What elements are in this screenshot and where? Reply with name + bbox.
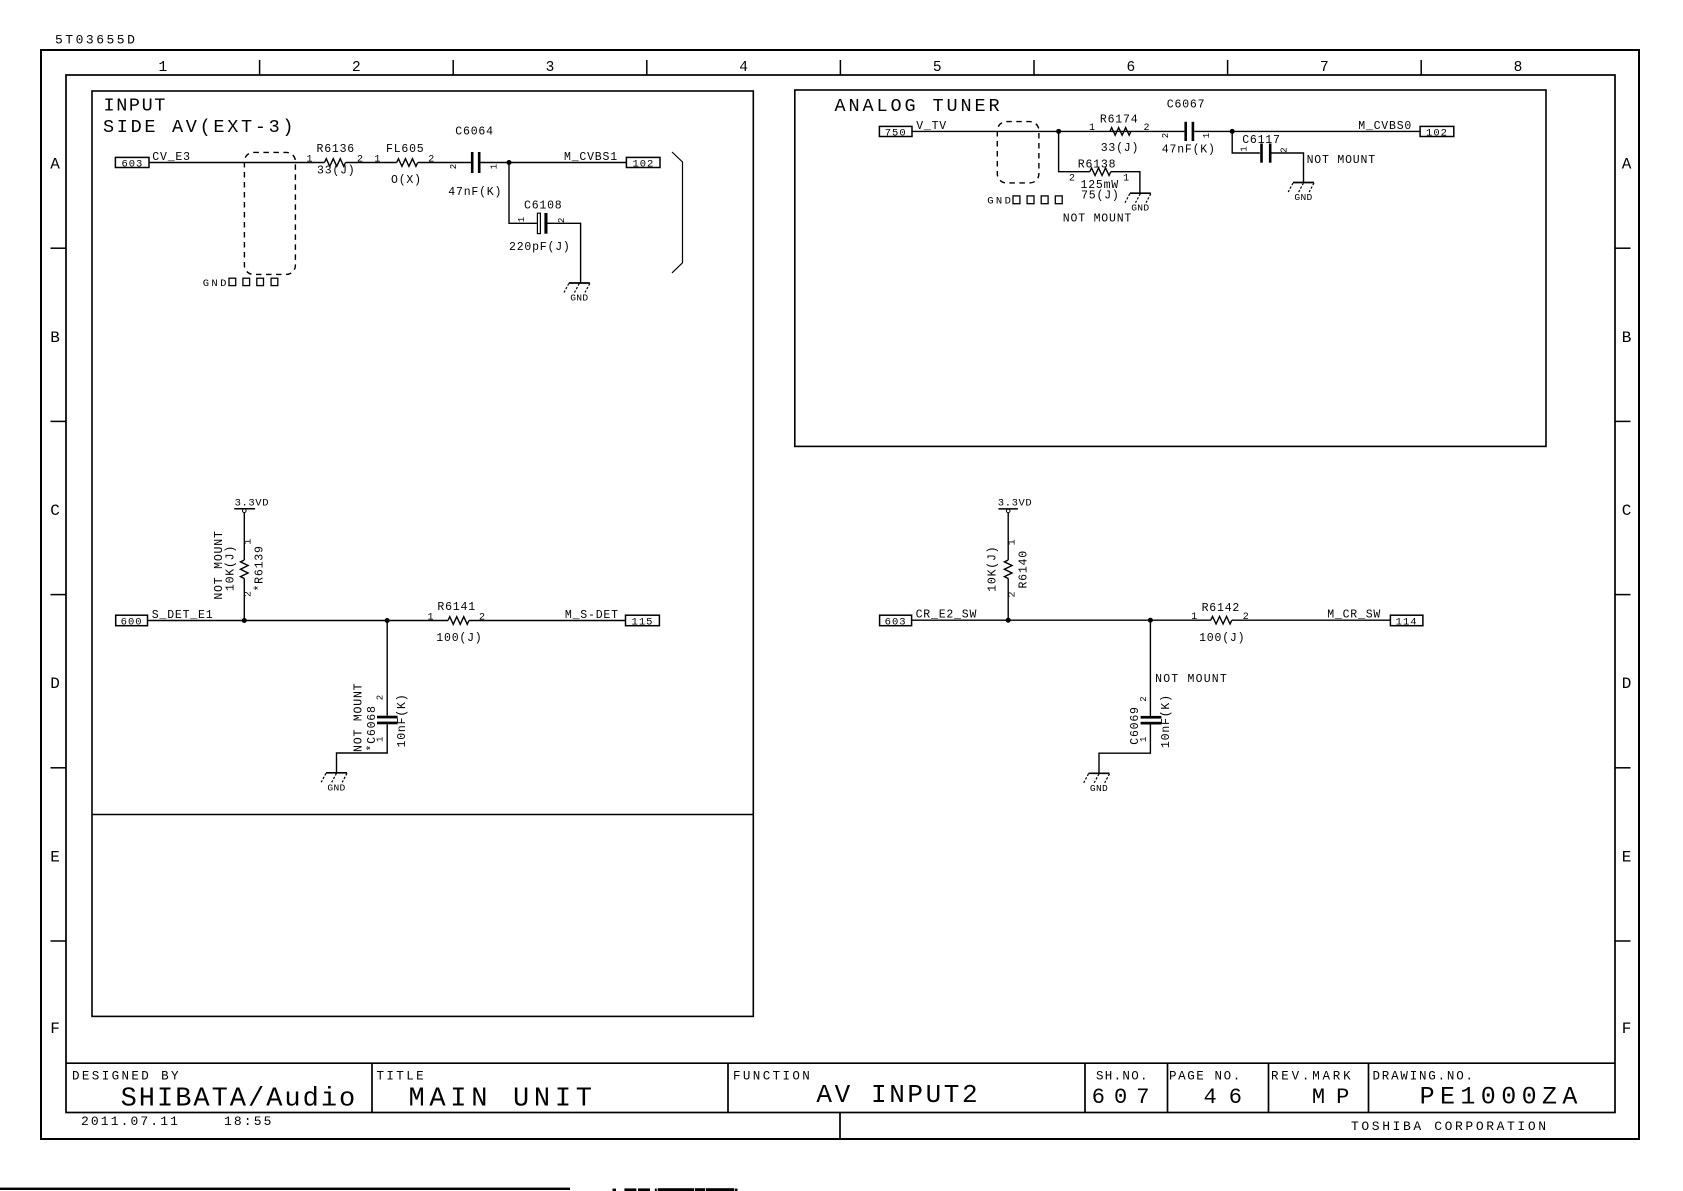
svg-text:GND: GND [987,195,1013,207]
wire R6138 to ground [1111,172,1140,194]
svg-text:115: 115 [632,616,654,628]
svg-text:10nF(K): 10nF(K) [396,694,409,748]
C6069 plates [1141,716,1162,719]
C6108 plates [537,213,540,233]
ground GND (C6068) [321,773,347,794]
svg-text:MP: MP [1312,1085,1360,1110]
svg-text:2: 2 [1243,612,1249,623]
svg-text:GND: GND [1294,192,1312,203]
connector pins GND squares (tuner) [987,195,1062,207]
svg-text:*R6139: *R6139 [254,545,267,591]
wire R6140 to junction [1007,578,1009,620]
svg-text:ANALOG TUNER: ANALOG TUNER [835,96,1003,117]
wire junction to port 102 [509,162,626,164]
FL605 zigzag body [397,159,418,167]
svg-text:M_CVBS1: M_CVBS1 [564,151,618,164]
svg-text:2: 2 [1007,591,1018,597]
wire C6108 to ground [548,223,581,283]
wire junction down to C6117 [1232,131,1260,153]
resistor R6138 [1063,159,1132,226]
ANALOG TUNER block frame [795,90,1546,446]
C6067 plates [1184,122,1187,141]
capacitor C6117 [1239,134,1376,167]
wire junction down to C6108 [509,163,537,224]
svg-text:1: 1 [306,154,312,165]
cable bundle bracket [672,152,683,273]
port 115 M_S-DET [626,615,660,628]
svg-text:10nF(K): 10nF(K) [1160,694,1173,748]
svg-text:R6174: R6174 [1100,113,1139,126]
svg-text:2: 2 [1069,174,1075,185]
wire FL605 to C6064 [418,162,471,164]
wire C6068 to ground [337,724,388,773]
svg-text:C6064: C6064 [455,125,494,138]
svg-text:4: 4 [739,60,748,76]
ground GND (C6117) [1288,183,1314,204]
svg-text:3.3VD: 3.3VD [998,498,1033,510]
svg-text:SH.NO.: SH.NO. [1096,1070,1149,1084]
svg-text:603: 603 [885,616,907,628]
R6174 zigzag body [1110,128,1131,136]
svg-text:102: 102 [632,158,654,170]
title block header labels [72,1070,1475,1084]
wire C6069 to ground [1099,725,1150,774]
svg-text:MAIN UNIT: MAIN UNIT [409,1084,597,1114]
svg-text:NOT MOUNT: NOT MOUNT [353,683,366,752]
wire C6064 to junction [481,162,510,164]
capacitor C6064 [448,125,502,199]
svg-text:75(J): 75(J) [1081,190,1120,203]
C6068 plates [377,716,398,719]
svg-text:2: 2 [376,695,386,700]
svg-text:100(J): 100(J) [1199,632,1245,645]
row ruler ticks left [51,248,67,941]
R6140 zigzag body [1004,560,1012,579]
C6064 plates [471,152,474,173]
wire junction down to C6068 [386,621,388,716]
svg-text:C6069: C6069 [1129,706,1142,745]
svg-text:NOT MOUNT: NOT MOUNT [1063,213,1132,226]
filter FL605 [374,143,434,187]
svg-text:D: D [50,675,60,693]
svg-text:18:55: 18:55 [224,1114,274,1129]
svg-text:B: B [1622,329,1632,347]
svg-text:607: 607 [1092,1085,1159,1110]
svg-text:GND: GND [327,782,345,793]
svg-text:E: E [1622,848,1632,866]
scan artifact bottom line [0,1188,570,1190]
wire V_TV [912,130,1184,132]
svg-text:GND: GND [1090,783,1108,794]
svg-text:M_CVBS0: M_CVBS0 [1358,120,1412,133]
svg-text:DESIGNED BY: DESIGNED BY [72,1070,181,1084]
svg-text:750: 750 [885,127,907,139]
wire CR_E2_SW [912,619,1211,621]
svg-text:C6117: C6117 [1242,134,1281,147]
row ruler ticks right [1615,248,1631,941]
svg-text:B: B [50,329,60,347]
R6141 zigzag body [448,617,469,625]
svg-text:1: 1 [1123,174,1129,185]
svg-text:GND: GND [1131,203,1149,214]
svg-text:1: 1 [490,164,500,169]
svg-text:M_CR_SW: M_CR_SW [1327,609,1381,622]
column ruler ticks [260,60,1422,75]
wire 3.3VD to R6139 [243,513,245,561]
svg-text:114: 114 [1396,616,1418,628]
svg-text:REV.MARK: REV.MARK [1271,1070,1353,1084]
connector dashed outline (side av) [244,152,295,274]
svg-text:100(J): 100(J) [436,632,482,645]
R6139 zigzag body [241,560,249,579]
port 603 CR_E2_SW [880,615,912,628]
svg-text:33(J): 33(J) [1101,142,1140,155]
power 3.3VD (R6140) [998,498,1033,513]
svg-text:33(J): 33(J) [317,165,356,178]
svg-text:GND: GND [203,278,229,290]
svg-text:1: 1 [374,154,380,165]
svg-text:A: A [50,156,60,174]
port 102 M_CVBS1 [626,157,660,170]
port 114 M_CR_SW [1390,615,1423,628]
svg-text:C6108: C6108 [524,199,563,212]
ground GND (R6138) [1125,193,1151,214]
svg-text:3.3VD: 3.3VD [235,497,270,509]
column numbers 1-8 [158,60,1522,76]
svg-text:1: 1 [1089,123,1095,134]
svg-text:M_S-DET: M_S-DET [565,609,619,622]
svg-text:7: 7 [1320,60,1329,76]
R6142 zigzag body [1211,616,1232,624]
wire R6141 to port 115 [469,620,625,622]
wire S_DET_E1 [148,620,449,622]
wire R6142 to port 114 [1232,619,1391,621]
svg-text:R6142: R6142 [1202,602,1241,615]
svg-text:2: 2 [557,218,567,223]
svg-text:10K(J): 10K(J) [986,546,999,592]
node junction C6117 [1230,129,1235,134]
port 750 V_TV [879,126,912,139]
svg-text:C: C [50,502,60,520]
row letters right A-F [1622,156,1632,1039]
svg-text:2: 2 [1143,123,1149,134]
svg-text:D: D [1622,675,1632,693]
svg-text:2: 2 [1139,696,1149,701]
svg-text:2: 2 [479,612,485,623]
svg-text:A: A [1622,156,1632,174]
ground GND (C6108) [564,283,590,304]
svg-text:SIDE AV(EXT-3): SIDE AV(EXT-3) [103,117,296,138]
R6136 zigzag body [325,159,346,167]
svg-text:2: 2 [449,164,459,169]
wire C6117 to ground [1272,153,1304,183]
svg-text:1: 1 [517,217,527,222]
svg-text:2: 2 [1161,133,1171,138]
svg-text:INPUT: INPUT [104,96,168,117]
wire R6139 to junction [243,578,245,620]
svg-text:46: 46 [1204,1085,1254,1110]
power 3.3VD (R6139) [234,497,269,512]
capacitor C6068 [353,683,410,752]
svg-text:R6140: R6140 [1017,550,1030,589]
svg-text:220pF(J): 220pF(J) [509,241,571,254]
svg-text:5T03655D: 5T03655D [55,33,137,48]
svg-text:*C6068: *C6068 [366,705,379,751]
svg-text:O(X): O(X) [391,174,422,187]
node junction R6140/CR_E2_SW [1006,618,1011,623]
wire CV_E3 [149,162,325,164]
svg-text:47nF(K): 47nF(K) [448,186,502,199]
wire 3.3VD to R6140 [1007,513,1009,560]
node junction C6069 [1148,618,1153,623]
resistor R6141 [427,601,485,645]
svg-text:3: 3 [546,60,555,76]
resistor R6140 [986,539,1030,597]
svg-text:5: 5 [933,60,942,76]
port 102 M_CVBS0 [1420,126,1454,139]
svg-text:2: 2 [357,154,363,165]
wire junction down to C6069 [1149,620,1151,716]
node junction M_CVBS1 [507,160,512,165]
connector dashed outline (tuner) [997,122,1039,183]
svg-text:6: 6 [1126,60,1135,76]
node junction C6068 [385,618,390,623]
capacitor C6067 [1161,99,1216,157]
node junction V_TV/R6138 [1056,129,1061,134]
svg-text:TITLE: TITLE [377,1070,427,1084]
svg-text:2: 2 [1279,147,1289,152]
svg-text:600: 600 [121,616,143,628]
svg-text:E: E [50,848,60,866]
svg-text:PE1000ZA: PE1000ZA [1420,1082,1583,1111]
svg-text:10K(J): 10K(J) [224,545,237,591]
svg-text:AV INPUT2: AV INPUT2 [816,1080,980,1110]
svg-text:FUNCTION: FUNCTION [733,1070,812,1084]
svg-text:1: 1 [1191,612,1197,623]
svg-text:2: 2 [352,60,361,76]
svg-text:TOSHIBA CORPORATION: TOSHIBA CORPORATION [1351,1119,1549,1134]
svg-text:GND: GND [570,293,588,304]
scan artifact text fragments [613,1188,738,1191]
svg-text:1: 1 [158,60,167,76]
wire R6136 to FL605 [346,162,397,164]
capacitor C6069 [1129,694,1173,748]
svg-text:NOT MOUNT: NOT MOUNT [1155,673,1228,686]
svg-text:8: 8 [1514,60,1523,76]
port 600 S_DET_E1 [116,615,148,628]
row letters left A-F [50,156,60,1039]
svg-text:R6141: R6141 [437,601,476,614]
svg-text:R6138: R6138 [1078,159,1117,172]
svg-text:2: 2 [428,154,434,165]
svg-text:C: C [1622,502,1632,520]
svg-text:1: 1 [427,612,433,623]
svg-text:NOT MOUNT: NOT MOUNT [1307,154,1376,167]
svg-text:102: 102 [1426,127,1448,139]
svg-text:F: F [50,1020,60,1038]
svg-text:603: 603 [121,158,143,170]
connector pins GND squares (side av) [203,278,278,290]
wire C6067 to port 102 [1194,130,1420,132]
svg-text:1: 1 [244,539,255,545]
svg-text:1: 1 [1239,146,1249,151]
resistor R6142 [1191,602,1248,645]
INPUT SIDE AV block frame [92,91,753,1016]
resistor R6139 [213,530,267,599]
svg-text:F: F [1622,1020,1632,1038]
svg-text:R6136: R6136 [317,143,356,156]
svg-text:FL605: FL605 [386,143,425,156]
svg-text:SHIBATA/Audio: SHIBATA/Audio [121,1085,358,1115]
resistor R6136 [306,143,363,178]
resistor R6174 [1089,113,1150,155]
node junction R6139/S_DET_E1 [242,618,247,623]
svg-text:1: 1 [1202,133,1212,138]
capacitor C6108 [509,199,571,254]
title block grid [66,1063,1615,1139]
R6138 zigzag body [1090,168,1111,176]
svg-text:1: 1 [1007,539,1018,545]
port 603 CV_E3 [115,157,149,170]
ground GND (C6069) [1084,773,1110,794]
svg-text:2011.07.11: 2011.07.11 [81,1114,180,1129]
C6117 plates [1260,144,1263,163]
svg-text:47nF(K): 47nF(K) [1162,144,1216,157]
svg-text:PAGE NO.: PAGE NO. [1169,1070,1242,1084]
wire junction down to R6138 [1059,131,1090,171]
svg-text:C6067: C6067 [1167,99,1206,112]
